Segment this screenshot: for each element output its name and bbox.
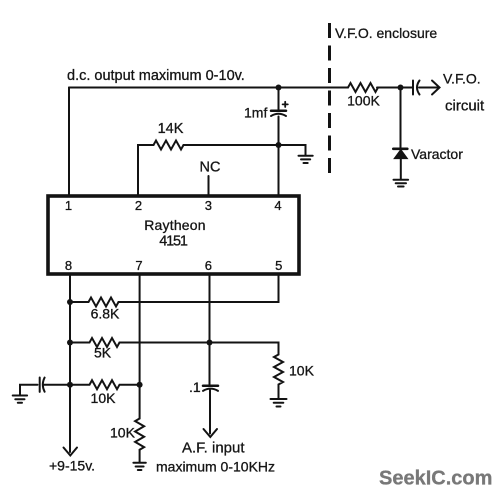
resistor R 100K — [348, 83, 378, 92]
ground: varactor ground — [394, 180, 409, 187]
label: circuit — [445, 98, 485, 115]
label: 14K — [158, 121, 184, 137]
label: +9-15v. — [49, 458, 95, 474]
label: pin 4 — [274, 198, 281, 213]
wire: pin 1 vertical drop — [68, 88, 70, 197]
wire: 100K to coupling cap — [377, 87, 412, 89]
resistor R 5K — [70, 338, 120, 347]
svg-text:V.F.O. enclosure: V.F.O. enclosure — [335, 25, 437, 41]
svg-text:6: 6 — [205, 258, 212, 273]
resistor R 10K pin7 vertical — [135, 419, 144, 450]
IC U1 Raytheon 4151 — [48, 196, 299, 274]
arrow: +9-15v supply — [64, 448, 78, 456]
capacitor: V.F.O. coupling cap — [413, 81, 420, 95]
svg-text:10K: 10K — [289, 363, 315, 379]
node: junction pin8 / 6.8K row — [67, 299, 73, 305]
resistor R 6.8K — [70, 298, 119, 307]
label: 5K — [94, 345, 112, 361]
svg-text:NC: NC — [200, 160, 221, 176]
dashed enclosure boundary — [328, 23, 331, 173]
label: + polarity of 1mf — [283, 102, 288, 107]
wire: pin 4 branch down to 1mf cap — [278, 88, 280, 111]
svg-text:+9-15v.: +9-15v. — [49, 458, 95, 474]
svg-text:5: 5 — [275, 258, 282, 273]
node: junction pin7 / 10K row — [137, 382, 143, 388]
wire: 5K row to right 10K — [120, 343, 279, 355]
label: maximum 0-10KHz — [156, 459, 275, 475]
ground: input cap ground — [13, 396, 27, 403]
wire: pin 8 drop from IC — [69, 274, 71, 385]
svg-text:SeekIC.com: SeekIC.com — [379, 468, 492, 490]
wire: pin 8 down to supply arrow — [69, 385, 71, 452]
wire: pin 3 NC stub — [208, 176, 210, 196]
wire: input ground stub up to row 3 — [20, 385, 38, 396]
ground: right 10K ground — [271, 399, 287, 407]
svg-text:10K: 10K — [91, 390, 117, 406]
svg-text:5K: 5K — [94, 345, 112, 361]
wire: input cap to pin 8 line — [44, 384, 71, 386]
svg-text:3: 3 — [205, 198, 212, 213]
node: junction 1mf / 14K / pin 4 — [276, 142, 282, 148]
label: 10K row — [91, 390, 117, 406]
ground: 1mf ground — [299, 156, 313, 163]
arrow: to V.F.O. circuit — [432, 81, 440, 95]
label: .1 — [189, 379, 201, 395]
label: pin 1 — [65, 198, 72, 213]
label: pin 8 — [65, 258, 72, 273]
svg-text:6.8K: 6.8K — [91, 306, 120, 322]
wire: top d.c. output bus from pin 1 to 100K — [69, 87, 348, 89]
wire: junction to ground stub — [279, 145, 306, 155]
svg-text:A.F. input: A.F. input — [182, 439, 245, 456]
wire: varactor branch vertical — [400, 88, 402, 149]
svg-text:14K: 14K — [158, 121, 184, 137]
watermark: SeekIC.com — [379, 468, 492, 490]
capacitor: input coupling cap — [40, 378, 45, 392]
svg-text:7: 7 — [135, 258, 142, 273]
svg-text:.1: .1 — [189, 379, 201, 395]
label: pin 3 — [205, 198, 212, 213]
svg-text:V.F.O.: V.F.O. — [443, 71, 481, 87]
label: 100K — [347, 93, 380, 109]
wire: pin 7 drop from IC — [139, 274, 141, 419]
label: 6.8K — [91, 306, 120, 322]
label: pin 6 — [205, 258, 212, 273]
wire: pin 6 drop from IC — [209, 274, 211, 385]
wire: .1 cap down to A.F. arrow — [209, 390, 211, 434]
svg-text:8: 8 — [65, 258, 72, 273]
wire: 1mf cap to junction — [278, 117, 280, 146]
label: pin 7 — [135, 258, 142, 273]
wire: pin7 10K to ground — [139, 450, 141, 462]
label: V.F.O. — [443, 71, 481, 87]
label: V.F.O. enclosure — [335, 25, 437, 41]
label: 10K pin7 — [110, 425, 136, 441]
svg-text:1: 1 — [65, 198, 72, 213]
ground: pin 7 ground — [133, 463, 145, 470]
capacitor C 1mf — [271, 111, 286, 116]
svg-text:2: 2 — [135, 198, 142, 213]
label: Raytheon — [144, 217, 206, 233]
label: d.c. output maximum 0-10v. — [67, 68, 245, 84]
diode D varactor — [393, 149, 407, 179]
svg-text:maximum 0-10KHz: maximum 0-10KHz — [156, 459, 275, 475]
node: junction top wire / varactor branch — [398, 85, 404, 91]
wire: right 10K to ground — [278, 385, 280, 399]
svg-text:10K: 10K — [110, 425, 136, 441]
resistor R 14K — [154, 141, 184, 150]
node: junction pin6 / 5K row — [207, 340, 213, 346]
label: pin 2 — [135, 198, 142, 213]
svg-text:Raytheon: Raytheon — [144, 217, 206, 233]
resistor R 10K right vertical — [274, 355, 283, 385]
svg-text:4151: 4151 — [159, 234, 188, 250]
svg-text:1mf: 1mf — [244, 105, 267, 121]
label: 1mf — [244, 105, 267, 121]
wire: pin 4 stub junction to IC — [278, 145, 280, 196]
wire: 14K right lead to junction — [184, 144, 279, 146]
svg-text:4: 4 — [274, 198, 281, 213]
resistor R 10K row — [70, 380, 140, 389]
label: NC — [200, 160, 221, 176]
label: 10K right — [289, 363, 315, 379]
node: junction pin8 / 10K row — [67, 382, 73, 388]
capacitor C .1 — [203, 386, 218, 391]
wire: pin 2 up and 14K row left lead — [138, 145, 154, 196]
svg-text:d.c. output maximum 0-10v.: d.c. output maximum 0-10v. — [67, 68, 245, 84]
wire: cap to V.F.O. circuit arrow — [419, 87, 438, 89]
node: junction pin8 / 5K row — [67, 340, 73, 346]
label: 4151 — [159, 234, 188, 250]
svg-text:Varactor: Varactor — [411, 146, 463, 162]
label: A.F. input — [182, 439, 245, 456]
wire: pin 5 drop from IC to row 1 — [119, 274, 279, 302]
svg-text:circuit: circuit — [445, 98, 485, 115]
node: junction top wire / pin4 branch — [276, 85, 282, 91]
svg-text:100K: 100K — [347, 93, 380, 109]
label: Varactor — [411, 146, 463, 162]
arrow: A.F. input — [204, 429, 218, 437]
label: pin 5 — [275, 258, 282, 273]
